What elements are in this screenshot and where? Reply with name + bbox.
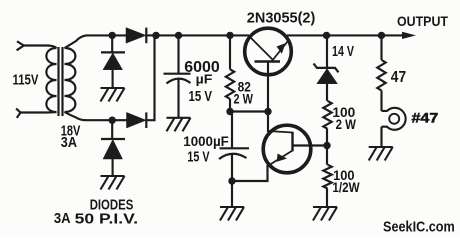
diode D2 (top AC node to ground) xyxy=(111,35,113,52)
capacitor C2 1000uF top plate xyxy=(220,147,250,149)
AC input terminal top xyxy=(17,41,24,50)
wire zener to R2 xyxy=(326,84,328,101)
wire R2 to divider node xyxy=(326,129,328,146)
ground (divider) xyxy=(313,207,337,221)
wire secondary bottom to bridge xyxy=(65,112,127,120)
node 82ohm bottom xyxy=(226,108,233,115)
svg-text:1/2W: 1/2W xyxy=(332,179,360,195)
wire D3 cathode up to + rail xyxy=(146,35,154,120)
node rail/filter cap xyxy=(175,32,182,39)
wire xyxy=(24,46,57,49)
svg-text:1000µF: 1000µF xyxy=(183,134,229,150)
Q2 collector line xyxy=(268,131,293,133)
svg-text:47: 47 xyxy=(391,69,406,86)
wire node to ground xyxy=(231,181,233,207)
wire Q1 base node down to Q2 collector xyxy=(267,112,269,133)
wire xyxy=(21,111,57,114)
wire Q2 emitter return xyxy=(232,165,268,181)
node: secondary top junction xyxy=(109,32,116,39)
node divider xyxy=(323,142,330,149)
node C2/emitter/ground xyxy=(228,177,235,184)
svg-text:#47: #47 xyxy=(412,111,439,126)
+ rail left segment xyxy=(154,34,250,36)
Q1 emitter arrowhead xyxy=(277,43,286,54)
wire R3 to ground xyxy=(326,189,328,208)
wire R4 to lamp xyxy=(380,91,382,111)
transformer T1 core xyxy=(59,47,63,116)
diode D3 (bottom, to + rail) xyxy=(127,112,147,128)
wire C2 to node xyxy=(231,154,233,181)
ground (C2/emitter) xyxy=(220,207,244,221)
wire lamp to ground xyxy=(380,127,382,147)
Q1 base lead down xyxy=(267,62,269,112)
svg-text:µF: µF xyxy=(196,72,213,87)
Q2 base bar xyxy=(291,132,293,152)
resistor R1 82 ohm 2W xyxy=(229,35,231,69)
wire node to Q1 base node xyxy=(230,110,268,112)
transistor Q1 2N3055 circle xyxy=(245,28,292,75)
diode D4 (bottom AC node to ground) xyxy=(111,120,113,138)
ground (bridge top) xyxy=(101,88,125,102)
wire rail to zener xyxy=(326,35,328,68)
Q1 emitter line xyxy=(272,42,288,62)
Q1 base bar xyxy=(255,60,281,62)
svg-text:2 W: 2 W xyxy=(336,117,356,132)
svg-text:SeekIC.com: SeekIC.com xyxy=(383,219,455,235)
resistor R2 100 ohm 2W xyxy=(323,101,331,129)
svg-text:50 P.I.V.: 50 P.I.V. xyxy=(75,212,138,228)
diode D1 (top, to + rail) xyxy=(126,28,146,44)
Q2 base lead right xyxy=(293,144,328,146)
Q1 collector line xyxy=(250,37,274,61)
wire C1 to ground xyxy=(177,79,179,118)
node rail/47 ohm xyxy=(378,32,385,39)
capacitor C1 top plate xyxy=(164,73,191,75)
capacitor C1 curved plate xyxy=(167,79,191,84)
lamp #47 xyxy=(382,108,406,130)
svg-text:3A: 3A xyxy=(61,135,77,151)
node rail/zener xyxy=(323,32,330,39)
node rail/bridge output xyxy=(152,32,159,39)
svg-text:14 V: 14 V xyxy=(332,44,354,60)
capacitor C1 6000uF lead xyxy=(177,35,179,73)
svg-text:115V: 115V xyxy=(13,73,39,89)
svg-text:3A: 3A xyxy=(54,211,71,227)
AC input terminal bottom xyxy=(16,109,20,118)
Q2 emitter arrowhead xyxy=(277,154,287,162)
+ rail right segment xyxy=(287,34,405,36)
OUTPUT arrow xyxy=(402,32,416,39)
ground (bridge bottom) xyxy=(101,176,125,190)
wire D1 cathode to rail node xyxy=(146,34,160,36)
transformer T1 primary winding xyxy=(46,48,56,112)
svg-text:2 W: 2 W xyxy=(234,91,254,107)
node rail/82 ohm xyxy=(226,32,233,39)
svg-text:2N3055(2): 2N3055(2) xyxy=(247,10,315,27)
ground (C1) xyxy=(167,118,191,132)
wire rail to R4 xyxy=(380,35,382,60)
svg-text:OUTPUT: OUTPUT xyxy=(397,14,448,30)
capacitor C2 curved plate xyxy=(219,154,247,159)
zener diode D5 14V xyxy=(314,64,339,73)
node: secondary bottom junction xyxy=(109,117,116,124)
svg-text:15 V: 15 V xyxy=(187,150,209,166)
resistor R4 47 ohm xyxy=(377,60,385,91)
wire secondary top to bridge xyxy=(65,35,127,48)
node Q1 base xyxy=(264,108,271,115)
Q2 emitter line xyxy=(269,151,293,166)
transistor Q2 circle xyxy=(263,125,311,173)
svg-text:15 V: 15 V xyxy=(189,89,213,105)
resistor R3 100 ohm 1/2W xyxy=(326,146,328,165)
wire node to C2 xyxy=(231,112,233,149)
transformer T1 secondary winding xyxy=(65,48,76,112)
ground (lamp) xyxy=(369,147,393,161)
